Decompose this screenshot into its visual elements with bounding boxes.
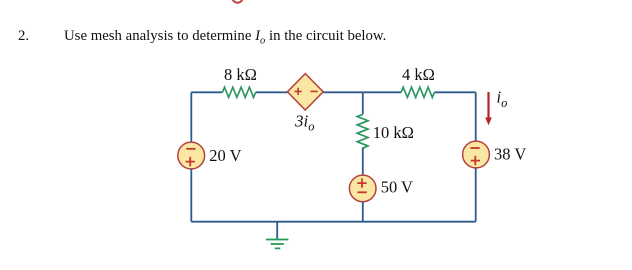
resistor 10k zigzag vertical xyxy=(357,114,368,148)
wire: left branch upper xyxy=(190,92,192,142)
plus sign 38V xyxy=(471,156,480,165)
current arrow io xyxy=(485,92,492,125)
resistor 4k zigzag xyxy=(401,87,434,97)
minus sign inside diamond xyxy=(311,90,318,92)
svg-text:Use mesh analysis to determine: Use mesh analysis to determine Io in the… xyxy=(64,28,386,47)
plus sign 20V xyxy=(186,157,195,166)
wire: resistor to diamond xyxy=(256,91,288,93)
wire: top-left segment xyxy=(191,91,222,93)
voltage source 20V xyxy=(178,142,205,169)
wire: 4k resistor to top-right corner xyxy=(434,91,475,93)
dependent source diamond 3io xyxy=(287,74,323,110)
svg-text:10 kΩ: 10 kΩ xyxy=(373,123,414,142)
svg-text:3io: 3io xyxy=(294,112,314,134)
minus sign 20V xyxy=(186,148,195,150)
wire: right branch upper xyxy=(475,92,477,142)
wire: 10k to 50V source xyxy=(362,148,364,176)
wire: 50V to bottom xyxy=(362,202,364,222)
svg-text:2.: 2. xyxy=(18,28,29,44)
wire: junction to 4k resistor xyxy=(363,91,401,93)
voltage source 38V xyxy=(463,141,490,168)
svg-text:50 V: 50 V xyxy=(381,178,413,197)
decorative red arc cut off at top edge xyxy=(232,0,242,3)
wire: bottom xyxy=(191,221,475,223)
ground stem xyxy=(276,222,278,240)
ground bars xyxy=(266,240,288,249)
svg-text:8 kΩ: 8 kΩ xyxy=(224,65,257,84)
minus sign 50V xyxy=(358,191,367,193)
svg-text:20 V: 20 V xyxy=(209,146,241,165)
wire: right branch lower xyxy=(475,168,477,222)
svg-text:38 V: 38 V xyxy=(494,145,526,164)
resistor R 8k zigzag xyxy=(222,87,255,97)
wire: diamond to junction xyxy=(323,91,363,93)
wire: left branch lower xyxy=(190,169,192,222)
plus sign inside diamond xyxy=(295,88,302,95)
svg-text:4 kΩ: 4 kΩ xyxy=(402,65,435,84)
plus sign 50V xyxy=(357,178,366,187)
wire: middle branch upper xyxy=(362,92,364,114)
svg-text:io: io xyxy=(497,87,508,110)
voltage source 50V xyxy=(349,175,376,202)
minus sign 38V xyxy=(470,147,479,149)
